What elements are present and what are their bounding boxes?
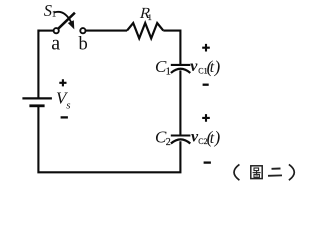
svg-text:): ) <box>213 127 222 147</box>
svg-text:a: a <box>51 33 60 55</box>
svg-text:): ) <box>213 56 222 76</box>
svg-text:1: 1 <box>52 10 56 19</box>
svg-text:s: s <box>66 99 70 111</box>
svg-text:b: b <box>79 35 88 55</box>
svg-text:1: 1 <box>148 12 152 22</box>
svg-text:2: 2 <box>166 137 171 148</box>
svg-text:1: 1 <box>166 67 171 78</box>
svg-text:S: S <box>44 1 52 20</box>
svg-text:v: v <box>190 58 198 75</box>
